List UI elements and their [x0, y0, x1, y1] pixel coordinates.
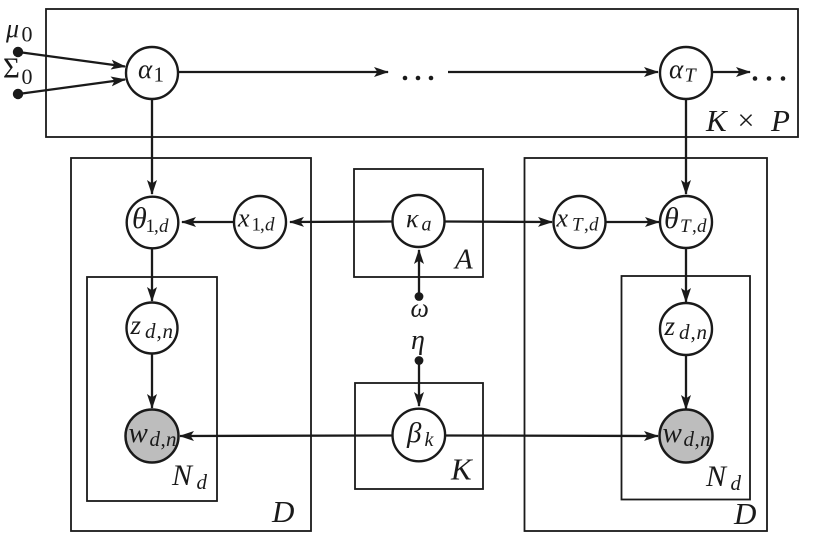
svg-text:D: D [733, 496, 756, 531]
plate N_d left [87, 277, 217, 501]
wire Sigma_0 to alpha_1 [22, 80, 125, 94]
wire eta to beta_k [418, 364, 420, 406]
node omega dot [415, 292, 424, 301]
wire theta_1d to z_dn left [151, 249, 153, 302]
wire dots to alpha_T [448, 71, 658, 73]
svg-text:Σ0: Σ0 [3, 53, 33, 90]
node eta dot [415, 356, 424, 365]
plate N_d right [622, 276, 751, 500]
node beta_k [393, 409, 446, 462]
node ldots mid [403, 76, 408, 81]
node z_dn right [660, 303, 712, 355]
node x_Td [554, 196, 606, 248]
svg-text:K×P: K×P [705, 103, 790, 138]
wire beta_k to w_dn left [180, 434, 392, 437]
node w_dn left [126, 410, 179, 463]
node mu_0 dot [13, 47, 23, 57]
wire beta_k to w_dn right [445, 434, 658, 437]
plate D right [525, 158, 768, 531]
wire alpha_1 to dots [178, 71, 388, 73]
svg-text:ω: ω [411, 294, 429, 323]
svg-text:K: K [450, 452, 474, 487]
node x_1d [234, 196, 286, 248]
node Sigma_0 dot [13, 89, 23, 99]
node z_dn left [127, 303, 178, 354]
plate A [354, 169, 483, 277]
plate D left [71, 158, 311, 531]
wire kappa_a to x_Td [445, 220, 552, 223]
plate K [355, 383, 483, 489]
wire omega to kappa_a [418, 250, 420, 293]
wire x_Td to theta_Td [606, 221, 660, 223]
svg-text:μ0: μ0 [5, 14, 33, 47]
wire kappa_a to x_1d [290, 220, 392, 223]
node alpha_1 [126, 47, 178, 99]
plate KxP [46, 9, 798, 137]
node theta_Td [660, 196, 712, 248]
node theta_1d [127, 197, 179, 249]
node alpha_T [660, 47, 712, 99]
svg-text:Nd: Nd [705, 460, 742, 495]
wire z_dn to w_dn right [685, 355, 687, 409]
svg-text:A: A [453, 244, 473, 276]
wire x_1d to theta_1d [182, 221, 234, 223]
node kappa_a [393, 195, 445, 247]
wire alpha_1 to theta_1d [151, 99, 153, 194]
wire mu_0 to alpha_1 [22, 53, 125, 67]
svg-text:η: η [411, 325, 425, 356]
svg-text:Nd: Nd [171, 459, 208, 494]
svg-text:D: D [271, 494, 294, 529]
wire theta_Td to z_dn right [685, 248, 687, 302]
wire alpha_T to theta_Td [685, 99, 687, 194]
wire z_dn to w_dn left [151, 354, 153, 409]
wire alpha_T to right dots [712, 71, 750, 73]
node w_dn right [660, 410, 713, 463]
node ldots right [753, 76, 758, 81]
